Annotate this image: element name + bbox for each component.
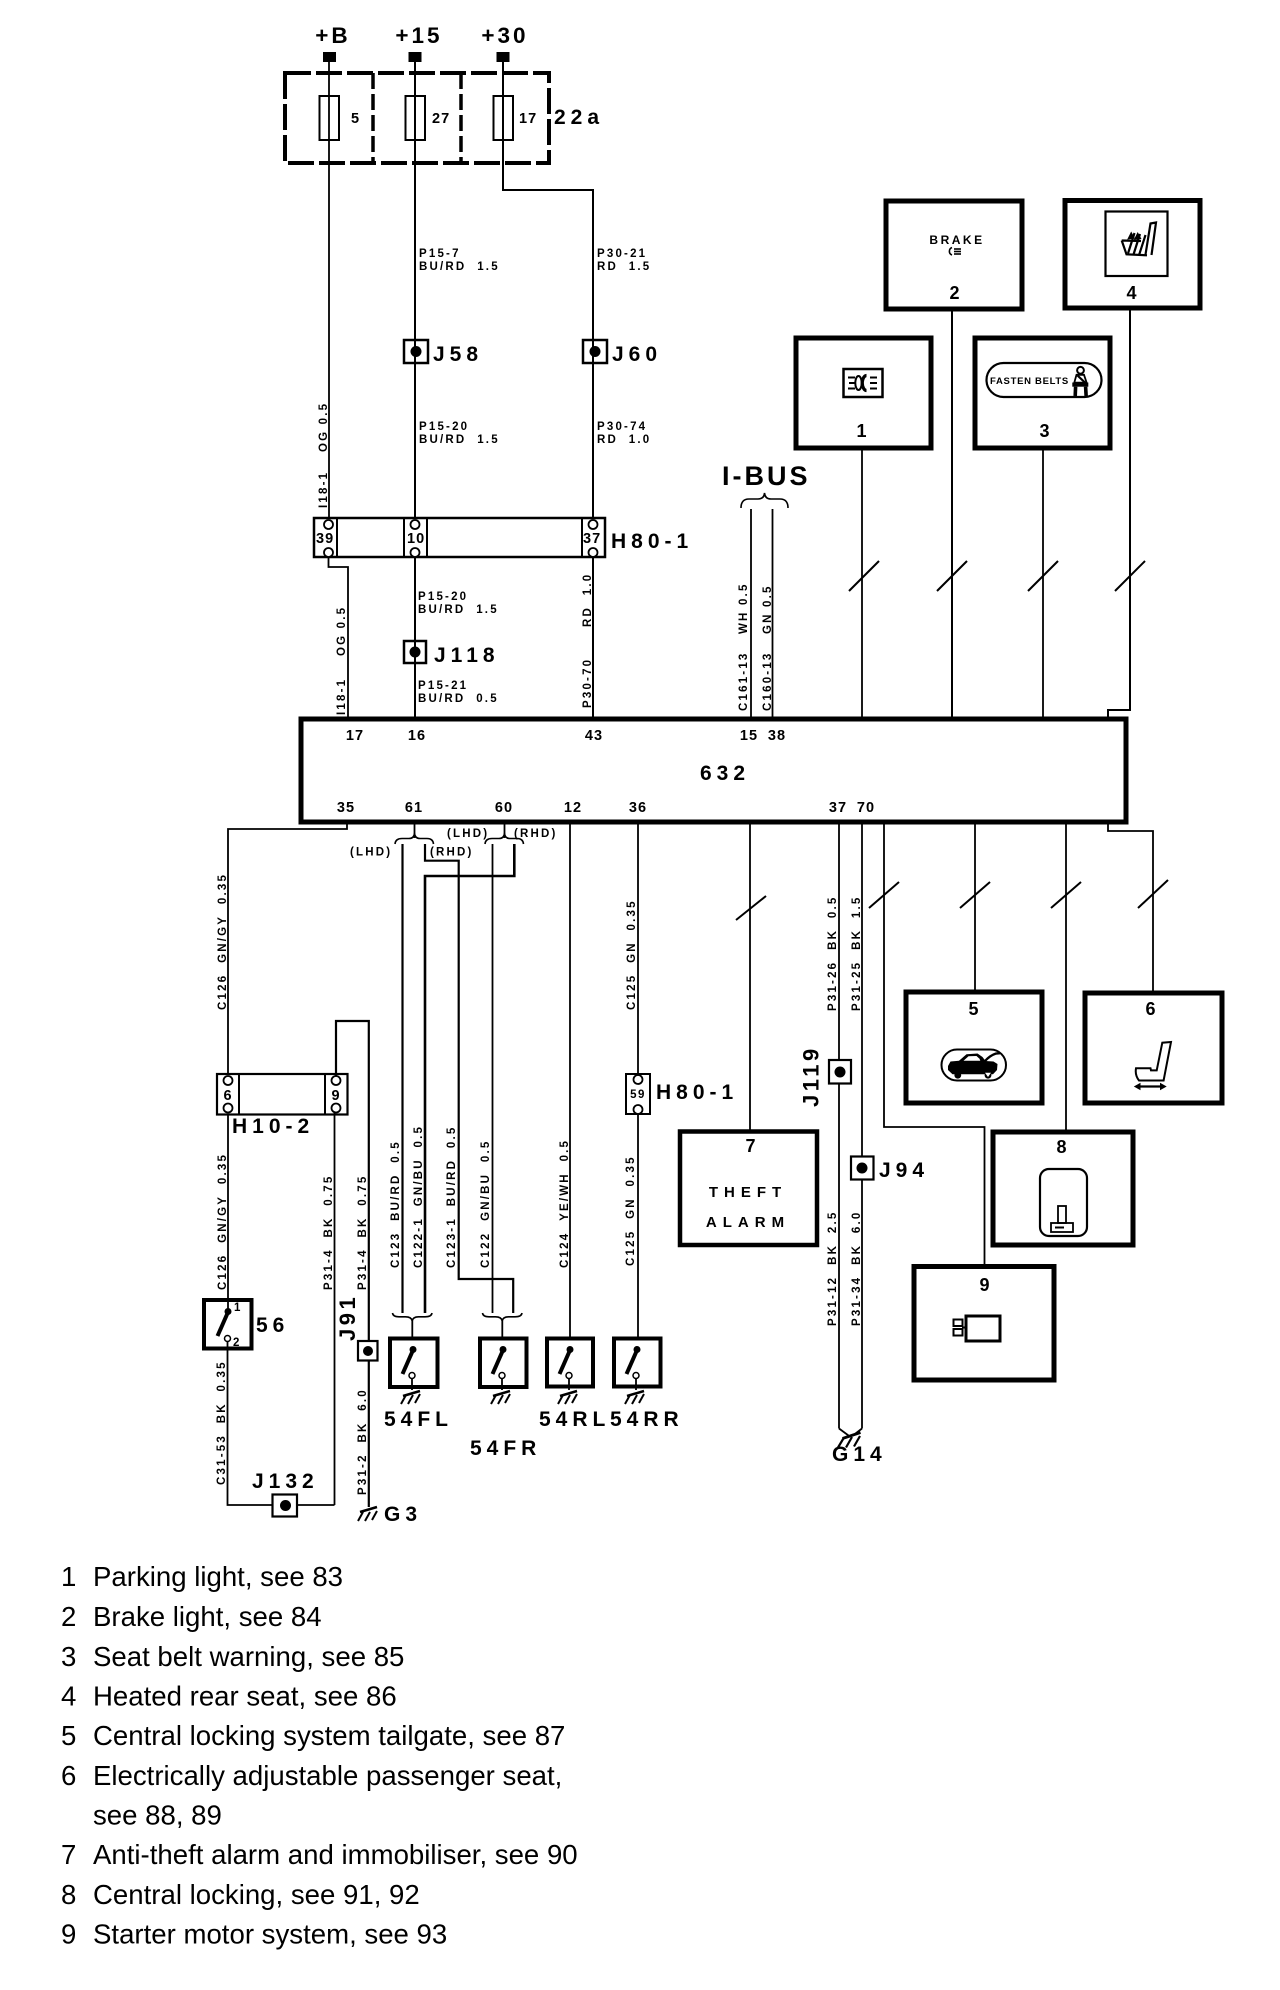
svg-text:BU/RD 1.5: BU/RD 1.5 xyxy=(419,434,500,446)
svg-text:Central locking system tailgat: Central locking system tailgate, see 87 xyxy=(93,1720,565,1751)
box 9 starter motor xyxy=(914,1267,1054,1381)
svg-text:7: 7 xyxy=(61,1839,76,1870)
wire brace to 54FR xyxy=(501,1321,503,1341)
junction J60 xyxy=(583,340,662,366)
svg-text:(RHD): (RHD) xyxy=(514,828,558,840)
wire 632 pin 35 to H10-2 pin 6 xyxy=(228,822,347,1075)
wire I-BUS WH to 632 pin 15 xyxy=(750,509,752,719)
pin 10 xyxy=(407,520,425,557)
svg-text:P31-26 BK 0.5: P31-26 BK 0.5 xyxy=(827,896,839,1011)
svg-text:70: 70 xyxy=(857,800,875,816)
svg-text:Anti-theft alarm and immobilis: Anti-theft alarm and immobiliser, see 90 xyxy=(93,1839,578,1870)
svg-text:THEFT: THEFT xyxy=(709,1184,787,1201)
svg-text:+30: +30 xyxy=(481,23,528,48)
legend item 3 xyxy=(61,1641,404,1672)
box 5 central locking tailgate xyxy=(906,992,1042,1103)
svg-text:9: 9 xyxy=(331,1088,340,1104)
svg-text:35: 35 xyxy=(337,800,355,816)
legend item 6 xyxy=(61,1760,562,1831)
wire label C161-13 WH 0.5 xyxy=(738,582,750,711)
box 7 theft alarm xyxy=(680,1132,817,1246)
svg-text:WH 0.5: WH 0.5 xyxy=(738,582,750,634)
svg-text:P30-74: P30-74 xyxy=(597,421,647,433)
wire 632 pin 36 to H80-1 pin 59 xyxy=(637,822,639,1076)
wire box3 to 632 xyxy=(1042,448,1044,719)
svg-text:G3: G3 xyxy=(384,1503,422,1526)
legend item 5 xyxy=(61,1720,565,1751)
box 4 heated rear seat xyxy=(1065,201,1200,309)
svg-text:54RL: 54RL xyxy=(539,1408,610,1431)
ground 54RR xyxy=(625,1391,644,1404)
slash wire 3 xyxy=(1028,561,1058,591)
svg-text:FASTEN BELTS: FASTEN BELTS xyxy=(990,376,1069,387)
svg-text:5: 5 xyxy=(61,1720,76,1751)
svg-text:36: 36 xyxy=(629,800,647,816)
junction J91 xyxy=(335,1294,378,1361)
svg-text:C123-1 BU/RD 0.5: C123-1 BU/RD 0.5 xyxy=(446,1126,458,1269)
junction J118 xyxy=(404,641,500,667)
box 3 seat belt warning xyxy=(975,338,1110,448)
wire box1 to 632 xyxy=(861,448,863,719)
slash wire box 6 xyxy=(1138,880,1168,908)
wire brace to 54FL xyxy=(411,1321,413,1341)
wire H10-2 pin 6 to switch 56 xyxy=(227,1115,229,1303)
svg-text:J118: J118 xyxy=(434,644,500,667)
svg-text:I18-1: I18-1 xyxy=(318,471,330,508)
svg-text:1: 1 xyxy=(61,1561,76,1592)
svg-text:J60: J60 xyxy=(612,343,662,366)
svg-text:C122 GN/BU 0.5: C122 GN/BU 0.5 xyxy=(480,1139,492,1268)
slash wire 4 xyxy=(1115,561,1145,591)
slash wire 1 xyxy=(849,561,879,591)
wire label C160-13 GN 0.5 xyxy=(762,584,774,711)
wire +30 fuse17 to H80-1 pin 37 xyxy=(503,62,593,518)
svg-text:+B: +B xyxy=(315,23,350,48)
wire box2 to 632 xyxy=(951,309,953,719)
terminal +15 xyxy=(395,23,442,62)
wire H80-1 pin 59 to 54RR xyxy=(637,1114,639,1340)
legend item 1 xyxy=(61,1561,343,1592)
slash wire box 9 xyxy=(869,882,899,908)
svg-text:P31-2 BK 6.0: P31-2 BK 6.0 xyxy=(357,1388,369,1495)
wire I-BUS GN to 632 pin 38 xyxy=(772,509,774,719)
ground 54FL xyxy=(401,1391,420,1404)
svg-text:54FR: 54FR xyxy=(470,1437,541,1460)
svg-text:P31-12 BK 2.5: P31-12 BK 2.5 xyxy=(827,1211,839,1326)
svg-text:P15-7: P15-7 xyxy=(419,248,461,260)
svg-text:OG 0.5: OG 0.5 xyxy=(336,606,348,656)
wire +B fuse5 to H80-1 pin 39 xyxy=(328,62,330,518)
wire 632 pin 37 to G14 xyxy=(838,822,840,1429)
brace 54FL merge xyxy=(393,1313,433,1321)
fuse 27 xyxy=(406,96,451,140)
svg-text:P31-4 BK 0.75: P31-4 BK 0.75 xyxy=(323,1175,335,1290)
svg-text:C126 GN/GY 0.35: C126 GN/GY 0.35 xyxy=(217,873,229,1010)
switch 54FR xyxy=(470,1339,541,1461)
svg-text:C160-13: C160-13 xyxy=(762,651,774,711)
svg-text:27: 27 xyxy=(432,111,450,127)
box 8 central locking xyxy=(993,1132,1133,1245)
wire H80-1 pin 37 to 632 pin 43 xyxy=(592,557,594,719)
wire 632 to theft alarm xyxy=(749,822,751,1133)
wire 632 pin 60 stub xyxy=(504,822,506,838)
svg-text:P31-34 BK 6.0: P31-34 BK 6.0 xyxy=(851,1211,863,1326)
svg-text:4: 4 xyxy=(1126,283,1137,303)
connector H10-2 xyxy=(217,1074,348,1138)
junction J119 xyxy=(799,1045,852,1107)
svg-text:632: 632 xyxy=(700,762,750,785)
svg-text:1: 1 xyxy=(856,421,867,441)
junction J58 xyxy=(404,340,483,366)
svg-text:3: 3 xyxy=(1039,421,1050,441)
svg-text:BU/RD 1.5: BU/RD 1.5 xyxy=(419,261,500,273)
wire +15 fuse27 to H80-1 pin 10 xyxy=(414,62,416,518)
svg-text:see 88, 89: see 88, 89 xyxy=(93,1800,222,1831)
svg-text:56: 56 xyxy=(256,1314,289,1337)
svg-text:(RHD): (RHD) xyxy=(430,847,474,859)
wire label P15-20 BU/RD 1.5 upper xyxy=(419,421,500,446)
svg-text:C123 BU/RD 0.5: C123 BU/RD 0.5 xyxy=(390,1140,402,1268)
wire label P30-74 RD 1.0 xyxy=(597,421,651,446)
slash wire box 8 xyxy=(1051,882,1081,908)
legend item 7 xyxy=(61,1839,578,1870)
svg-text:G14: G14 xyxy=(832,1443,887,1466)
slash wire 2 xyxy=(937,561,967,591)
wire 61 RHD step right xyxy=(425,844,513,1313)
svg-text:(LHD): (LHD) xyxy=(350,847,392,859)
svg-text:54RR: 54RR xyxy=(610,1408,684,1431)
connector H80-1 upper xyxy=(314,518,693,557)
svg-text:J58: J58 xyxy=(433,343,483,366)
I-BUS brace xyxy=(741,493,788,508)
svg-text:Central locking, see 91, 92: Central locking, see 91, 92 xyxy=(93,1879,420,1910)
legend item 9 xyxy=(61,1919,447,1950)
fuse box 22a xyxy=(285,73,549,163)
pin 37 xyxy=(583,520,601,557)
pin 6 xyxy=(223,1076,232,1113)
wire label P15-21 BU/RD 0.5 xyxy=(418,680,499,705)
terminal +B xyxy=(315,23,350,62)
svg-text:H80-1: H80-1 xyxy=(611,530,693,553)
svg-text:12: 12 xyxy=(564,800,582,816)
svg-text:Electrically adjustable passen: Electrically adjustable passenger seat, xyxy=(93,1760,562,1791)
wire label P15-7 BU/RD 1.5 xyxy=(419,248,500,273)
svg-text:GN 0.5: GN 0.5 xyxy=(762,584,774,634)
svg-text:37: 37 xyxy=(583,531,601,547)
svg-text:(LHD): (LHD) xyxy=(447,828,489,840)
wire box4 to 632 xyxy=(1108,308,1130,719)
control unit 632 xyxy=(301,719,1126,822)
svg-text:22a: 22a xyxy=(554,106,604,129)
wire 632 to box 8 xyxy=(1065,822,1067,1134)
ground G3 xyxy=(358,1503,422,1526)
svg-text:16: 16 xyxy=(408,728,426,744)
svg-text:Seat belt warning, see 85: Seat belt warning, see 85 xyxy=(93,1641,404,1672)
svg-text:54FL: 54FL xyxy=(384,1408,453,1431)
svg-text:6: 6 xyxy=(61,1760,76,1791)
svg-text:RD 1.5: RD 1.5 xyxy=(597,261,651,273)
svg-text:1: 1 xyxy=(234,1302,242,1314)
svg-text:3: 3 xyxy=(61,1641,76,1672)
svg-text:9: 9 xyxy=(61,1919,76,1950)
svg-text:15: 15 xyxy=(740,728,758,744)
junction J94 xyxy=(851,1157,929,1183)
svg-text:59: 59 xyxy=(630,1089,646,1101)
slash wire box 5 xyxy=(960,882,990,908)
svg-text:9: 9 xyxy=(979,1275,990,1295)
svg-text:J91: J91 xyxy=(335,1294,360,1341)
wire 632 to box 5 xyxy=(974,822,976,992)
box 2 brake light xyxy=(886,201,1022,309)
box 1 parking light xyxy=(796,338,931,448)
wire 632 to box 9 xyxy=(884,822,985,1268)
svg-text:60: 60 xyxy=(495,800,513,816)
svg-text:J132: J132 xyxy=(252,1470,319,1493)
svg-text:Parking light, see 83: Parking light, see 83 xyxy=(93,1561,343,1592)
wire 61 LHD to 54FL brace xyxy=(401,844,403,1313)
svg-text:C31-53 BK 0.35: C31-53 BK 0.35 xyxy=(216,1360,228,1485)
svg-text:P30-70: P30-70 xyxy=(582,658,594,708)
wire H80-1 pin 10 to 632 pin 16 xyxy=(414,557,416,719)
wire label P15-20 BU/RD 1.5 lower xyxy=(418,591,499,616)
svg-text:I18-1: I18-1 xyxy=(336,678,348,715)
svg-text:P30-21: P30-21 xyxy=(597,248,647,260)
svg-text:38: 38 xyxy=(768,728,786,744)
svg-text:6: 6 xyxy=(1145,999,1156,1019)
junction J132 xyxy=(252,1470,319,1517)
svg-text:Starter motor system, see 93: Starter motor system, see 93 xyxy=(93,1919,447,1950)
svg-text:H80-1: H80-1 xyxy=(656,1081,738,1104)
svg-text:17: 17 xyxy=(519,111,537,127)
svg-text:J119: J119 xyxy=(799,1045,824,1107)
svg-text:2: 2 xyxy=(61,1601,76,1632)
slash theft alarm wire xyxy=(736,896,766,920)
ground G14 xyxy=(832,1429,887,1467)
svg-text:C122-1 GN/BU 0.5: C122-1 GN/BU 0.5 xyxy=(413,1125,425,1268)
svg-text:37: 37 xyxy=(829,800,847,816)
svg-text:J94: J94 xyxy=(879,1159,929,1182)
ground 54FR xyxy=(491,1391,510,1404)
box 6 adjustable seat xyxy=(1085,993,1222,1103)
svg-text:P31-25 BK 1.5: P31-25 BK 1.5 xyxy=(851,896,863,1011)
brace 54FR merge xyxy=(483,1313,523,1321)
switch 54RL xyxy=(539,1339,610,1432)
wire J91 to G3 xyxy=(368,1361,370,1508)
wire 632 pin 12 to 54RL xyxy=(569,822,571,1340)
legend item 4 xyxy=(61,1681,397,1712)
svg-text:P15-21: P15-21 xyxy=(418,680,468,692)
svg-text:17: 17 xyxy=(346,728,364,744)
switch 56 xyxy=(204,1300,289,1349)
svg-text:2: 2 xyxy=(233,1337,241,1349)
wire 60 LHD to 54FR brace xyxy=(492,844,494,1313)
svg-text:BRAKE: BRAKE xyxy=(929,233,984,247)
svg-text:6: 6 xyxy=(223,1088,232,1104)
svg-text:C124 YE/WH 0.5: C124 YE/WH 0.5 xyxy=(559,1139,571,1268)
svg-text:BU/RD 1.5: BU/RD 1.5 xyxy=(418,604,499,616)
wire switch 56 to J132 xyxy=(228,1349,335,1506)
wire 632 to box 6 xyxy=(1108,822,1153,993)
ground 54RL xyxy=(558,1391,577,1404)
svg-text:Brake light, see 84: Brake light, see 84 xyxy=(93,1601,322,1632)
svg-text:P15-20: P15-20 xyxy=(418,591,468,603)
svg-text:ALARM: ALARM xyxy=(706,1214,790,1231)
svg-text:P15-20: P15-20 xyxy=(419,421,469,433)
wire J132 up to H10-2 pin 9 xyxy=(334,1112,336,1505)
svg-text:P31-4 BK 0.75: P31-4 BK 0.75 xyxy=(357,1175,369,1290)
connector H80-1 pin 59 xyxy=(626,1074,738,1114)
legend item 2 xyxy=(61,1601,322,1632)
wire 632 pin 61 stub xyxy=(414,822,416,838)
legend item 8 xyxy=(61,1879,420,1910)
fuse 17 xyxy=(494,96,538,140)
pin 39 xyxy=(316,520,334,557)
svg-text:5: 5 xyxy=(968,999,979,1019)
switch 54RR xyxy=(610,1339,684,1432)
svg-text:RD 1.0: RD 1.0 xyxy=(582,573,594,627)
wire label P30-21 RD 1.5 xyxy=(597,248,651,273)
svg-text:BU/RD 0.5: BU/RD 0.5 xyxy=(418,693,499,705)
svg-text:C126 GN/GY 0.35: C126 GN/GY 0.35 xyxy=(217,1153,229,1290)
svg-text:43: 43 xyxy=(585,728,603,744)
svg-text:C125 GN 0.35: C125 GN 0.35 xyxy=(626,899,638,1010)
brace pin 61 split xyxy=(395,834,434,845)
svg-text:5: 5 xyxy=(351,111,360,127)
svg-text:+15: +15 xyxy=(395,23,442,48)
svg-text:4: 4 xyxy=(61,1681,76,1712)
svg-text:2: 2 xyxy=(949,283,960,303)
svg-text:8: 8 xyxy=(1056,1137,1067,1157)
svg-text:Heated rear seat, see 86: Heated rear seat, see 86 xyxy=(93,1681,397,1712)
switch 54FL xyxy=(384,1339,453,1432)
fuse 5 xyxy=(320,96,361,140)
svg-text:10: 10 xyxy=(407,531,425,547)
wire H80-1 pin 39 to 632 pin 17 xyxy=(329,557,349,719)
svg-text:RD 1.0: RD 1.0 xyxy=(597,434,651,446)
svg-text:39: 39 xyxy=(316,531,334,547)
pin 9 xyxy=(331,1076,340,1113)
svg-text:C125 GN 0.35: C125 GN 0.35 xyxy=(625,1155,637,1266)
svg-text:61: 61 xyxy=(405,800,423,816)
svg-text:OG 0.5: OG 0.5 xyxy=(318,402,330,452)
svg-text:I-BUS: I-BUS xyxy=(722,461,811,491)
svg-text:8: 8 xyxy=(61,1879,76,1910)
svg-text:C161-13: C161-13 xyxy=(738,651,750,711)
svg-text:7: 7 xyxy=(745,1136,756,1156)
terminal +30 xyxy=(481,23,528,62)
brace pin 60 split xyxy=(485,834,524,845)
wire 632 pin 70 to G14 xyxy=(861,822,863,1429)
wire 60 RHD step left down xyxy=(425,844,514,1313)
svg-text:H10-2: H10-2 xyxy=(232,1115,314,1138)
wire H10-2 pin 9 over connector to J91 xyxy=(336,1021,369,1341)
